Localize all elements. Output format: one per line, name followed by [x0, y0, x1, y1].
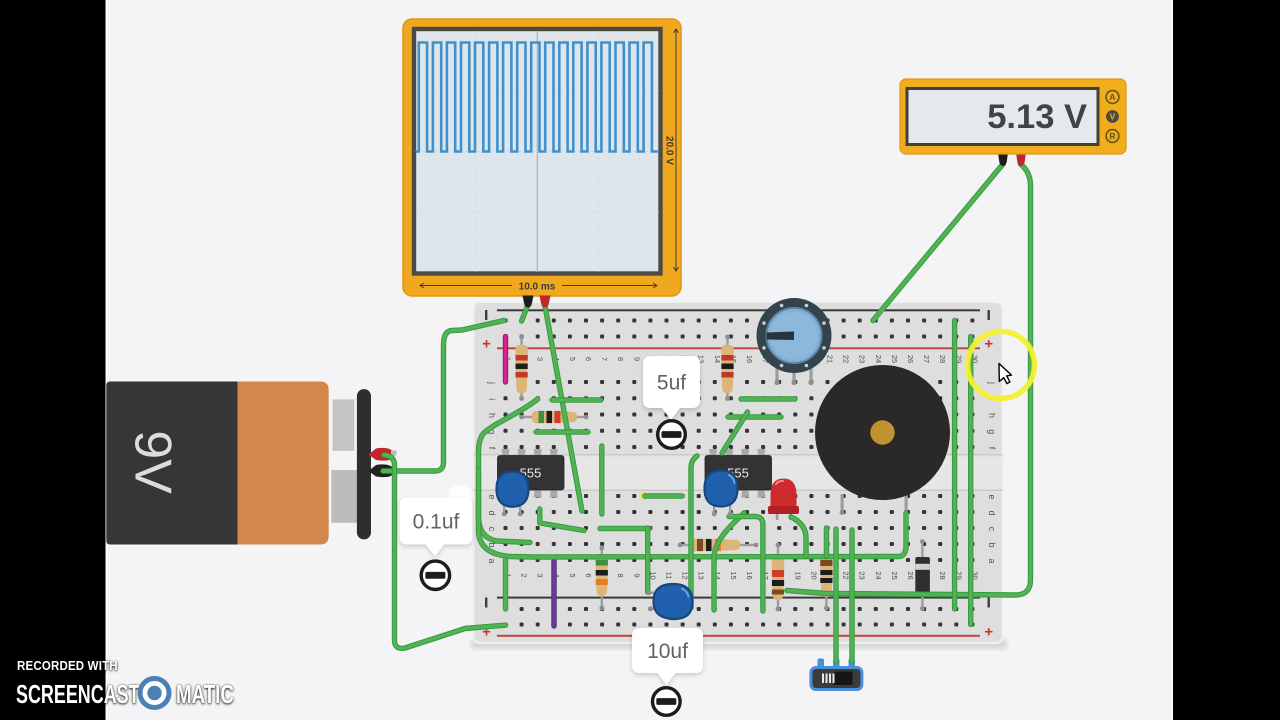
breadboard — [472, 302, 1007, 649]
svg-text:R: R — [1109, 131, 1115, 141]
svg-text:27: 27 — [922, 355, 931, 363]
wire — [968, 337, 973, 625]
wire — [824, 528, 829, 556]
svg-text:+: + — [984, 624, 993, 641]
wire — [645, 528, 650, 592]
555 timer U2 — [705, 449, 772, 498]
svg-text:g: g — [987, 429, 997, 434]
wire — [536, 429, 588, 434]
column numbers — [504, 355, 980, 580]
svg-text:16: 16 — [745, 571, 754, 579]
resistor R7 — [820, 546, 833, 611]
resistor R5 — [596, 546, 609, 611]
rail polarity labels — [485, 310, 990, 608]
polarity marker for C2 5uf — [658, 421, 686, 449]
svg-text:a: a — [987, 558, 997, 563]
svg-text:A: A — [1109, 92, 1115, 102]
capacitor C3 leads — [647, 590, 658, 611]
bottom positive rail line — [497, 635, 980, 637]
wire — [729, 517, 763, 612]
capacitor C1 leads — [502, 502, 523, 516]
svg-text:20.0 V: 20.0 V — [664, 136, 675, 165]
multimeter black probe — [998, 152, 1008, 166]
node highlight — [641, 492, 649, 500]
svg-text:3: 3 — [536, 357, 545, 361]
svg-text:23: 23 — [858, 355, 867, 363]
svg-text:a: a — [487, 558, 497, 563]
capacitor C2 5uf — [705, 471, 738, 507]
wire — [741, 396, 795, 401]
svg-text:c: c — [987, 527, 997, 532]
svg-text:24: 24 — [874, 571, 883, 579]
wire — [722, 412, 748, 453]
scope red probe — [540, 296, 551, 308]
svg-text:7: 7 — [600, 357, 609, 361]
svg-text:5: 5 — [568, 357, 577, 361]
wire — [384, 455, 506, 648]
wire — [873, 164, 1003, 321]
wire — [600, 526, 649, 531]
svg-text:j: j — [987, 381, 997, 384]
svg-text:8: 8 — [616, 357, 625, 361]
capacitor C1 0.1uf — [497, 472, 529, 507]
wire — [599, 446, 604, 514]
svg-text:26: 26 — [906, 571, 915, 579]
555 timer U1 — [498, 449, 565, 498]
resistor R2 — [721, 335, 734, 401]
svg-text:9V: 9V — [123, 430, 181, 494]
buzzer BZ1 legs — [840, 494, 909, 515]
wire — [545, 306, 582, 511]
svg-text:21: 21 — [826, 355, 835, 363]
wire — [383, 321, 504, 472]
svg-text:9: 9 — [632, 357, 641, 361]
svg-text:15: 15 — [729, 571, 738, 579]
tooltip 10uf — [632, 628, 703, 685]
svg-text:+: + — [482, 336, 491, 353]
slide switch SW1 — [811, 659, 862, 690]
svg-text:22: 22 — [842, 571, 851, 579]
cursor highlight ring — [968, 332, 1035, 399]
tooltip 0.1uf — [400, 498, 473, 557]
battery BAT1 9V — [106, 382, 396, 545]
svg-text:25: 25 — [890, 571, 899, 579]
battery black terminal clip — [369, 464, 395, 477]
wire — [849, 530, 854, 661]
diode D1 — [915, 539, 930, 611]
multimeter buttons A V R — [1106, 91, 1119, 143]
battery red terminal clip — [369, 448, 395, 461]
scope time axis label 10.0 ms — [420, 283, 657, 288]
resistor R3 — [519, 411, 588, 424]
svg-text:6: 6 — [584, 357, 593, 361]
svg-text:6: 6 — [584, 573, 593, 577]
svg-text:h: h — [487, 413, 497, 418]
svg-text:8: 8 — [616, 573, 625, 577]
wire — [552, 397, 601, 402]
svg-text:e: e — [987, 494, 997, 499]
top positive rail line — [497, 347, 980, 349]
svg-text:12: 12 — [681, 571, 690, 579]
oscilloscope — [403, 19, 681, 308]
svg-text:10.0 ms: 10.0 ms — [519, 282, 556, 293]
svg-text:28: 28 — [938, 355, 947, 363]
wire — [479, 399, 538, 543]
multimeter — [900, 79, 1126, 166]
wire — [833, 529, 838, 661]
breadboard holes — [504, 319, 975, 627]
watermark: recorded with Screencast-O-Matic — [17, 659, 118, 673]
svg-text:10uf: 10uf — [647, 640, 688, 663]
svg-text:9: 9 — [632, 573, 641, 577]
scope volt axis label 20.0 V — [674, 29, 679, 271]
svg-text:5uf: 5uf — [657, 371, 686, 394]
row letters — [487, 381, 997, 564]
tooltip 5uf — [643, 356, 700, 420]
potentiometer POT1 — [757, 298, 832, 373]
svg-text:25: 25 — [890, 355, 899, 363]
resistor R6 — [772, 543, 785, 612]
polarity marker for C3 10uf — [653, 688, 681, 716]
top negative rail line — [497, 309, 980, 311]
svg-text:16: 16 — [745, 355, 754, 363]
svg-text:24: 24 — [874, 355, 883, 363]
svg-text:V: V — [1110, 112, 1116, 122]
capacitor C3 10uf — [654, 584, 693, 619]
bottom negative rail line — [497, 597, 980, 599]
wire — [714, 513, 744, 610]
svg-text:5.13 V: 5.13 V — [987, 98, 1087, 136]
scope waveform — [416, 43, 660, 152]
wire — [787, 164, 1031, 595]
svg-text:h: h — [987, 413, 997, 418]
svg-text:c: c — [487, 527, 497, 532]
mouse cursor — [999, 364, 1012, 384]
wire — [479, 470, 907, 557]
svg-text:5: 5 — [568, 573, 577, 577]
polarity marker for C-0.1uf — [421, 561, 449, 589]
svg-text:d: d — [487, 510, 497, 515]
svg-text:11: 11 — [665, 572, 674, 580]
multimeter red probe — [1016, 152, 1026, 166]
svg-text:i: i — [487, 398, 497, 400]
buzzer BZ1 — [815, 365, 950, 500]
LED LED1 — [768, 479, 799, 521]
svg-text:e: e — [487, 494, 497, 499]
wire — [691, 456, 697, 608]
svg-text:20: 20 — [809, 571, 818, 579]
wire — [522, 306, 528, 321]
svg-text:d: d — [987, 510, 997, 515]
svg-text:j: j — [487, 381, 497, 384]
magenta wire — [503, 337, 508, 383]
wire — [952, 321, 957, 610]
resistor R1 — [515, 335, 528, 401]
svg-text:2: 2 — [520, 573, 529, 577]
svg-text:0.1uf: 0.1uf — [413, 510, 460, 533]
svg-text:22: 22 — [842, 355, 851, 363]
svg-text:26: 26 — [906, 355, 915, 363]
svg-text:b: b — [987, 542, 997, 547]
svg-text:19: 19 — [793, 571, 802, 579]
scope black probe — [523, 296, 534, 308]
wire — [540, 509, 584, 531]
svg-text:28: 28 — [938, 571, 947, 579]
svg-text:14: 14 — [713, 355, 722, 363]
resistor R4 — [678, 539, 759, 552]
wire — [503, 560, 508, 609]
wire — [645, 493, 682, 498]
svg-text:3: 3 — [536, 573, 545, 577]
wire — [791, 517, 806, 556]
purple wire — [551, 558, 556, 626]
wire — [728, 414, 781, 419]
svg-text:23: 23 — [858, 571, 867, 579]
tooltip fragment — [449, 486, 471, 517]
potentiometer POT1 legs — [774, 368, 813, 385]
capacitor C2 leads — [712, 502, 733, 516]
svg-text:13: 13 — [697, 571, 706, 579]
